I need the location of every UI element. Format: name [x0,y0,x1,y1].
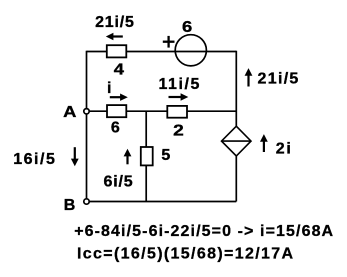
svg-text:16i/5: 16i/5 [13,151,56,168]
svg-text:+6-84i/5-6i-22i/5=0 -> i=15/68: +6-84i/5-6i-22i/5=0 -> i=15/68A [74,223,334,240]
svg-text:21i/5: 21i/5 [258,70,300,87]
svg-text:21i/5: 21i/5 [95,14,135,31]
svg-text:6i/5: 6i/5 [104,173,134,190]
svg-text:11i/5: 11i/5 [158,76,200,93]
svg-text:5: 5 [161,147,171,164]
svg-text:Icc=(16/5)(15/68)=12/17A: Icc=(16/5)(15/68)=12/17A [77,246,294,263]
svg-text:B: B [64,197,76,214]
svg-text:A: A [63,102,77,121]
svg-text:4: 4 [114,59,125,78]
svg-text:6: 6 [111,119,121,136]
svg-text:2: 2 [173,121,185,139]
svg-text:2i: 2i [276,140,293,157]
svg-text:i: i [107,80,112,97]
svg-text:6: 6 [182,17,193,36]
